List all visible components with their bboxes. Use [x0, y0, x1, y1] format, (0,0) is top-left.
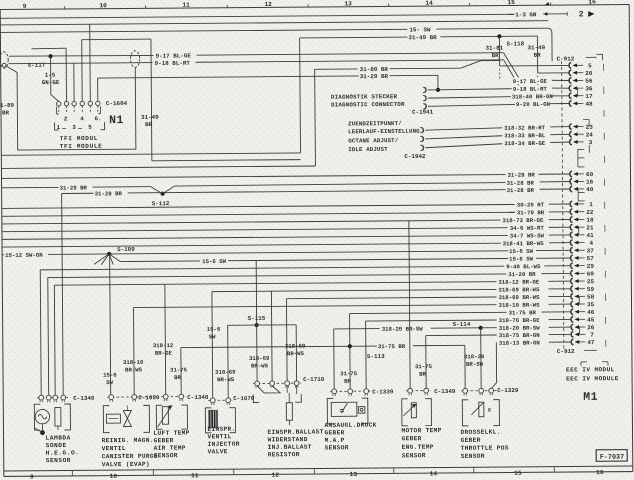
svg-text:LUFT TEMP: LUFT TEMP [153, 430, 189, 437]
svg-text:M.A.P: M.A.P [325, 437, 345, 444]
label TFI MODUL / TFI MODULE [60, 135, 103, 150]
wire S-115 branch to injector and ballast pin4 [228, 325, 297, 400]
connector C-1604 pin circles [57, 101, 101, 112]
connector C-1348 air temp sensor [161, 394, 209, 401]
svg-text:S-117: S-117 [28, 62, 46, 69]
svg-text:60: 60 [587, 271, 595, 278]
svg-text:31-49 BR: 31-49 BR [408, 34, 437, 41]
svg-text:25: 25 [587, 278, 595, 285]
svg-text:REINIG. MAGN.: REINIG. MAGN. [102, 437, 154, 444]
wire bus y160.5 [152, 160, 301, 161]
connector C-1346 lambda sensor [37, 395, 95, 403]
label 318-10 BR-WS above canister purge right [123, 359, 144, 374]
svg-text:47: 47 [587, 339, 595, 346]
connector C-1349 engine temp sensor [406, 388, 456, 395]
pin 60 of C-912 [570, 171, 594, 178]
svg-text:31-49: 31-49 [141, 114, 159, 121]
wire 318-33 BR-BL [425, 134, 570, 139]
svg-text:DROSSELKL.: DROSSELKL. [460, 429, 500, 436]
svg-text:ENG.TEMP: ENG.TEMP [402, 444, 434, 451]
svg-text:C-1348: C-1348 [187, 394, 209, 401]
wire lambda pin3 riser [53, 285, 56, 397]
label 31-80 BR [360, 66, 389, 73]
label 1-5 GN-GE [42, 72, 60, 87]
svg-text:C-1346: C-1346 [73, 395, 95, 402]
pin 47 of C-912 [571, 339, 595, 346]
wire 9-17 BL-GE (S-117 line) [9, 52, 570, 85]
wire bus y152.8 [1, 153, 300, 155]
node S-118 [497, 34, 524, 48]
svg-text:318-12 BR-GE: 318-12 BR-GE [498, 279, 540, 286]
label 31-81 BR [485, 45, 503, 60]
canister purge valve body [103, 405, 149, 432]
label LAMBDA SONDE H.E.G.O. SENSOR [46, 434, 80, 464]
pin 23 of C-912 [569, 124, 593, 131]
wire throttle right riser 318-13 BR-GN [491, 343, 496, 389]
wire C-1941 pin3 line 9-20 BL-GN [428, 104, 570, 107]
wire bus 31-28 BR via S-112 to pin 16 [2, 179, 571, 195]
svg-text:C-1349: C-1349 [434, 388, 456, 395]
svg-text:BR-WS: BR-WS [287, 350, 305, 357]
svg-text:31-75: 31-75 [170, 367, 188, 374]
svg-text:BR: BR [492, 52, 500, 59]
bracket pins 23-24 [583, 119, 589, 126]
svg-text:TFI MODULE: TFI MODULE [60, 143, 103, 150]
svg-text:31-20 BR: 31-20 BR [508, 271, 536, 278]
wire bus 318-69 BR-WS to pin 58 [286, 293, 571, 303]
svg-text:318-20: 318-20 [464, 353, 485, 360]
svg-text:GEBER: GEBER [324, 429, 344, 436]
throttle position sensor potentiometer [462, 400, 499, 426]
label EEC IV MODUL / MODULE [566, 362, 619, 383]
air temp sensor thermistor [156, 405, 187, 429]
wire bus 318-13 BR-GN to pin 47 [496, 339, 571, 347]
label 9-17 BL-GE left [156, 52, 192, 59]
label C-1942 [404, 153, 426, 160]
svg-text:57: 57 [587, 255, 595, 262]
svg-text:BR-GE: BR-GE [155, 350, 173, 357]
wire bus 318-12 BR-GE to pin 25 [54, 278, 571, 290]
wire 318-34 BR-GE [425, 142, 570, 148]
wire bus 318-69 BR-WS to pin 59 [212, 285, 571, 296]
svg-text:318-76 BR-GE: 318-76 BR-GE [499, 317, 541, 324]
svg-text:15-6 SW: 15-6 SW [509, 255, 534, 262]
label 31-75 BR above engine temp [415, 363, 433, 378]
wire bus 31-20 BR to pin 60b [48, 270, 571, 282]
svg-text:C-1670: C-1670 [233, 395, 255, 402]
label 15-6 SW above canister purge [103, 372, 117, 387]
svg-text:31-28 BR: 31-28 BR [507, 171, 535, 178]
grid column numbers top [23, 0, 596, 10]
svg-text:F-7037: F-7037 [600, 454, 625, 462]
wire 9-18 BL-RT [9, 59, 570, 92]
svg-text:BR-WS: BR-WS [251, 362, 269, 369]
svg-text:17: 17 [585, 93, 593, 100]
svg-text:318-32 BR-RT: 318-32 BR-RT [504, 124, 546, 131]
wire 15-SW bus [0, 28, 552, 65]
label 318-69 BR-WS above ballast left [249, 355, 270, 370]
svg-text:VENTIL: VENTIL [208, 433, 232, 440]
svg-text:15- SW: 15- SW [409, 26, 431, 33]
label 31-75 BR above MAP [340, 370, 358, 385]
svg-text:7: 7 [590, 332, 594, 339]
wire 318-32 BR-RT [425, 127, 570, 131]
svg-text:EINSPR.: EINSPR. [207, 426, 235, 433]
svg-text:31-70 BR: 31-70 BR [517, 209, 545, 216]
svg-text:12: 12 [264, 1, 272, 8]
label EINSPR. VENTIL INJECTOR VALVE [207, 426, 239, 456]
wire bus 318-20 BR-SW to pin 26 [334, 324, 572, 334]
label C-912 top [557, 54, 603, 62]
svg-text:SW: SW [106, 379, 113, 386]
svg-text:12: 12 [272, 472, 280, 479]
svg-text:AIR TEMP: AIR TEMP [154, 445, 186, 452]
label 9-17 BL-GE right [512, 77, 552, 85]
svg-text:SENSOR: SENSOR [325, 444, 349, 451]
wire MAP left riser [333, 329, 335, 391]
svg-text:EEC IV MODULE: EEC IV MODULE [566, 375, 619, 382]
label 318-34 BR-GE [503, 139, 550, 147]
wire riser x301 31-49 BR link [299, 38, 302, 153]
svg-text:31-28 BR: 31-28 BR [95, 190, 123, 197]
svg-text:318-33 BR-BL: 318-33 BR-BL [504, 132, 546, 139]
svg-text:C-1659: C-1659 [138, 394, 160, 401]
svg-text:15-6 SW: 15-6 SW [509, 248, 534, 255]
wire stub pin 5 [500, 64, 570, 67]
wire bus 31-28 BR to pin 60 [1, 171, 570, 182]
svg-text:LEERLAUF-EINSTELLUNG: LEERLAUF-EINSTELLUNG [348, 128, 420, 136]
pin 3 of C-912 [570, 139, 593, 146]
label 9-18 BL-RT left [155, 60, 191, 67]
svg-text:318-34 BR-GE: 318-34 BR-GE [504, 140, 546, 147]
svg-text:13: 13 [344, 0, 352, 7]
svg-text:31-49: 31-49 [527, 44, 545, 51]
pin 40 of C-912 [570, 186, 594, 193]
terminal at left border of 31-80 BR [1, 63, 6, 67]
svg-text:5: 5 [88, 124, 92, 131]
svg-text:DIAGNOSTIC CONNECTOR: DIAGNOSTIC CONNECTOR [331, 101, 405, 109]
connector C-1710 injection ballast resistor [253, 376, 325, 388]
svg-text:ZUENDZEITPUNKT/: ZUENDZEITPUNKT/ [348, 120, 402, 127]
svg-text:BR: BR [145, 121, 153, 128]
svg-text:H.E.G.O.: H.E.G.O. [46, 449, 80, 456]
svg-text:31-75: 31-75 [415, 363, 433, 370]
wire bus 318-73 BR-GE [2, 217, 571, 228]
label REINIG. MAGN. VENTIL CANISTER PURGE VALVE (EVAP) [102, 437, 158, 468]
svg-text:31-28 BR: 31-28 BR [507, 187, 535, 194]
connector pin tail dashes at S-118 drops [500, 68, 538, 86]
label 1-3 GN with arrow to sheet 2 [515, 11, 567, 18]
wire bus 15-12 SW-GN / 15-6 SW to pin 37 [2, 248, 571, 259]
pin 60 of C-912 [571, 270, 595, 277]
pin 18 of C-912 [570, 216, 594, 223]
pin 26 of C-912 [571, 324, 595, 331]
wire throttle left riser [464, 345, 466, 390]
bracket pins 26-7 [578, 327, 580, 334]
svg-text:9-17 BL-GE: 9-17 BL-GE [156, 52, 192, 59]
label 31-49 BR vertical wire [141, 114, 159, 128]
label DROSSELKL. GEBER THROTTLE POS SENSOR [460, 429, 508, 460]
svg-text:6.: 6. [94, 115, 101, 122]
pin 58 of C-912 [571, 293, 595, 300]
svg-text:OCTANE ADJUST/: OCTANE ADJUST/ [348, 137, 399, 144]
bracket pins group 2 [578, 189, 585, 201]
svg-text:GEBER: GEBER [461, 437, 481, 444]
label DIAGNOSTIK STECKER / DIAGNOSTIC CONNECTOR [331, 93, 405, 108]
wire drop to TFI pin 4 [81, 40, 83, 102]
label 318-40 BR-GN [512, 93, 554, 100]
svg-text:GEBER: GEBER [154, 437, 174, 444]
svg-text:2: 2 [579, 10, 584, 19]
svg-text:9-18 BL-RT: 9-18 BL-RT [513, 86, 548, 93]
connector C-1329 throttle position sensor [461, 387, 519, 396]
svg-text:318-20 BR-SW: 318-20 BR-SW [499, 325, 541, 332]
svg-text:24: 24 [586, 131, 594, 138]
svg-text:3: 3 [72, 124, 76, 131]
wire 31-80 BR upper branch [315, 61, 500, 70]
wire ballast pin3 riser [285, 299, 288, 382]
svg-text:35: 35 [587, 301, 595, 308]
wire bus 9-40 BL-WS to pin 29 [40, 262, 571, 274]
svg-text:2: 2 [64, 115, 68, 122]
svg-text:BR: BR [2, 109, 10, 116]
pin 21 of C-912 [570, 224, 594, 231]
svg-text:318-69: 318-69 [285, 343, 306, 350]
connector C-1941 pins [423, 87, 426, 109]
pin 5 of C-912 [569, 62, 592, 69]
svg-text:318-12: 318-12 [153, 342, 174, 349]
svg-text:IDLE ADJUST: IDLE ADJUST [348, 146, 388, 153]
pin 22 of C-912 [570, 209, 594, 216]
wire bus 318-76 BR-GE to pin 45 [366, 316, 572, 325]
connector C-1659 canister purge valve [107, 394, 160, 402]
svg-text:INJECTOR: INJECTOR [208, 441, 240, 448]
svg-text:N1: N1 [109, 114, 124, 127]
svg-text:20: 20 [585, 70, 593, 77]
svg-text:9: 9 [23, 3, 27, 10]
junction of 31-29 BR at C-1941 pin 1 [436, 88, 440, 92]
svg-text:318-41 BR-WS: 318-41 BR-WS [503, 240, 545, 247]
svg-text:318-75 BR-GN: 318-75 BR-GN [499, 332, 541, 339]
svg-text:ANSAUGL.DRUCK: ANSAUGL.DRUCK [324, 422, 376, 429]
svg-text:21: 21 [586, 224, 594, 231]
svg-text:C-912: C-912 [557, 348, 575, 355]
svg-text:30-20 RT: 30-20 RT [517, 201, 545, 208]
svg-text:1-5: 1-5 [45, 72, 56, 79]
svg-text:31-28 BR: 31-28 BR [507, 180, 535, 187]
pin 35 of C-912 [571, 301, 595, 308]
wire TFI pin6 riser and 31-49 BR drop via x152.5 [97, 39, 152, 161]
label C-912 bottom [557, 348, 597, 355]
connector pass-through ellipse at left border [0, 52, 8, 68]
svg-text:DIAGNOSTIK STECKER: DIAGNOSTIK STECKER [331, 93, 398, 101]
connector C-1942 pins [420, 128, 423, 151]
svg-text:BR: BR [534, 52, 542, 59]
TFI module pin numbers row 2 4 6 [56, 106, 101, 122]
svg-text:1-3 GN: 1-3 GN [515, 11, 537, 18]
wire bus 34-6 WS-RT [2, 224, 571, 235]
svg-text:BR: BR [344, 378, 351, 385]
svg-text:16: 16 [596, 469, 604, 476]
wire bus 318-41 BR-WS [2, 240, 571, 251]
svg-text:15-6: 15-6 [207, 326, 221, 333]
wire bus 318-10 BR-WS to pin 35 [133, 301, 571, 312]
svg-text:C-1942: C-1942 [404, 153, 426, 160]
svg-text:14: 14 [430, 470, 438, 477]
label 15- SW [409, 26, 431, 33]
svg-text:GN-GE: GN-GE [42, 79, 60, 86]
svg-text:31-80 BR: 31-80 BR [360, 66, 389, 73]
wire S-109 drop to canister purge valve [110, 254, 111, 397]
wire bus 34-7 WS-SW [2, 232, 571, 243]
label EINSPR.BALLAST WIDERSTAND INJ.BALLAST RESISTOR [267, 428, 323, 458]
svg-text:BR: BR [419, 371, 426, 378]
svg-text:15-12 SW-GN: 15-12 SW-GN [5, 252, 43, 259]
wire 31-29 BR line from TFI pin6 to diagnostic connector [98, 73, 438, 93]
label 15-6 SW at injector feed [207, 326, 221, 341]
label 31-49 BR right [527, 44, 545, 59]
TFI module pin numbers row 1 3 5 [55, 122, 105, 131]
wire S-115 riser to 15-6 SW bus [255, 260, 258, 381]
svg-text:9-18 BL-RT: 9-18 BL-RT [155, 60, 191, 67]
grid column numbers bottom [30, 469, 604, 480]
label 318-12 BR-GE above air temp [153, 342, 174, 357]
engine temp sensor thermistor [402, 399, 432, 426]
svg-text:S-113: S-113 [367, 353, 385, 360]
svg-text:S-114: S-114 [453, 321, 471, 328]
svg-text:59: 59 [587, 286, 595, 293]
wire injector left riser [211, 292, 214, 401]
wire 1-3 GN feed line [0, 14, 514, 18]
svg-text:9: 9 [30, 474, 34, 480]
svg-text:11: 11 [191, 472, 199, 479]
svg-text:SENSOR: SENSOR [402, 452, 426, 459]
wire air temp sensor left riser 318-12 BR-GE [164, 284, 167, 396]
svg-text:C-912: C-912 [557, 55, 575, 62]
svg-text:18: 18 [586, 217, 594, 224]
label 31-75 BR above air temp right [170, 367, 188, 382]
label 9-18 BL-RT right [512, 85, 552, 93]
pin 46 of C-912 [571, 309, 595, 316]
node S-112 [152, 192, 170, 208]
svg-text:15-6 SW: 15-6 SW [202, 258, 227, 265]
label 31-80 BR at left border [0, 102, 15, 117]
svg-text:31-75 BR: 31-75 BR [378, 343, 406, 350]
wire C-1941 pin1 line [428, 89, 519, 90]
svg-text:INJ.BALLAST: INJ.BALLAST [268, 444, 312, 451]
svg-text:40: 40 [586, 186, 594, 193]
svg-text:15: 15 [514, 470, 522, 477]
svg-text:VALVE (EVAP): VALVE (EVAP) [102, 461, 150, 468]
connector C-1339 MAP sensor [330, 388, 394, 396]
svg-text:45: 45 [587, 317, 595, 324]
label ZUENDZEITPUNKT / OCTANE ADJUST block [348, 120, 420, 153]
node S-115 [248, 315, 266, 327]
svg-text:S-109: S-109 [117, 246, 135, 253]
svg-text:15-6: 15-6 [103, 372, 117, 379]
pin 24 of C-912 [570, 131, 594, 138]
label C-1604 [106, 100, 128, 107]
bracket pins 36-17 [577, 88, 579, 96]
svg-text:BR-SW: BR-SW [466, 361, 484, 368]
svg-text:SW: SW [209, 333, 216, 340]
svg-text:VENTIL: VENTIL [102, 445, 126, 452]
svg-text:EEC IV MODUL: EEC IV MODUL [566, 366, 615, 373]
svg-text:318-69: 318-69 [249, 355, 270, 362]
svg-text:C-1941: C-1941 [412, 109, 434, 116]
label MOTOR TEMP GEBER ENG.TEMP SENSOR [401, 427, 441, 459]
wire engine temp left riser 318-73 BR-GE [409, 221, 410, 391]
svg-text:BR-WS: BR-WS [217, 376, 235, 383]
svg-text:9-20 BL-GN: 9-20 BL-GN [516, 101, 551, 108]
wire lambda ground riser x62 [62, 194, 64, 398]
pin 45 of C-912 [571, 316, 595, 323]
svg-text:WIDERSTAND: WIDERSTAND [268, 436, 308, 443]
svg-text:M1: M1 [583, 391, 598, 404]
label 318-69 BR-WS above injector [215, 369, 236, 384]
svg-text:MOTOR TEMP: MOTOR TEMP [401, 427, 441, 434]
wire C-1941 pin2 line 318-40 BR-GN [428, 96, 570, 98]
wire 31-81 BR drop [498, 36, 500, 66]
svg-text:SENSOR: SENSOR [154, 452, 178, 459]
svg-text:13: 13 [350, 471, 358, 478]
wire bus 318-75 BR-GN to pin 7 [426, 331, 572, 340]
svg-text:SENSOR: SENSOR [46, 457, 71, 464]
wire canister purge right riser [133, 308, 136, 397]
wire MAP right riser 318-76 BR-GE [365, 321, 368, 391]
wire throttle mid riser 318-20 BR-SW [480, 328, 482, 391]
svg-text:48: 48 [585, 101, 593, 108]
pin 16 of C-912 [570, 178, 594, 185]
svg-text:318-10: 318-10 [123, 359, 144, 366]
node S-114 [453, 321, 483, 330]
svg-text:31-28 BR: 31-28 BR [60, 184, 88, 191]
label 31-28 BR left A [59, 184, 93, 192]
wire 31-75 BR distribution line S-113 [181, 343, 465, 352]
svg-text:1: 1 [589, 201, 593, 208]
svg-text:S-118: S-118 [506, 40, 524, 47]
svg-text:5: 5 [588, 63, 592, 70]
svg-text:318-69 BR-WS: 318-69 BR-WS [498, 286, 540, 293]
svg-text:37: 37 [587, 247, 595, 254]
svg-text:LAMBDA: LAMBDA [46, 434, 71, 441]
svg-text:29: 29 [587, 263, 595, 270]
svg-text:C-1339: C-1339 [372, 388, 394, 395]
wire bus 15-6 SW to pin 57 [120, 255, 571, 266]
wire ballast pin2 riser [270, 291, 273, 381]
wire bus y22 [0, 21, 548, 25]
svg-text:16: 16 [588, 0, 596, 5]
svg-text:6: 6 [488, 408, 491, 414]
label C-1941 [412, 109, 434, 116]
svg-text:4: 4 [590, 240, 594, 247]
label ANSAUGL.DRUCK GEBER M.A.P SENSOR [324, 422, 376, 452]
pin 4 of C-912 [570, 240, 593, 247]
label 9-20 BL-GN [516, 101, 551, 108]
svg-text:31-29 BR: 31-29 BR [360, 73, 389, 80]
node S-109 [107, 246, 135, 256]
svg-text:41: 41 [586, 232, 594, 239]
svg-text:36: 36 [585, 85, 593, 92]
pin 41 of C-912 [570, 232, 594, 239]
svg-text:58: 58 [587, 294, 595, 301]
node S-117 [28, 54, 53, 69]
svg-text:31-75 BR: 31-75 BR [509, 309, 537, 316]
svg-text:C-1604: C-1604 [106, 100, 128, 107]
svg-text:S-112: S-112 [152, 200, 170, 207]
label 318-20 BR-SW above throttle [464, 353, 485, 368]
connector C-912 boundary dashed line [562, 61, 564, 350]
